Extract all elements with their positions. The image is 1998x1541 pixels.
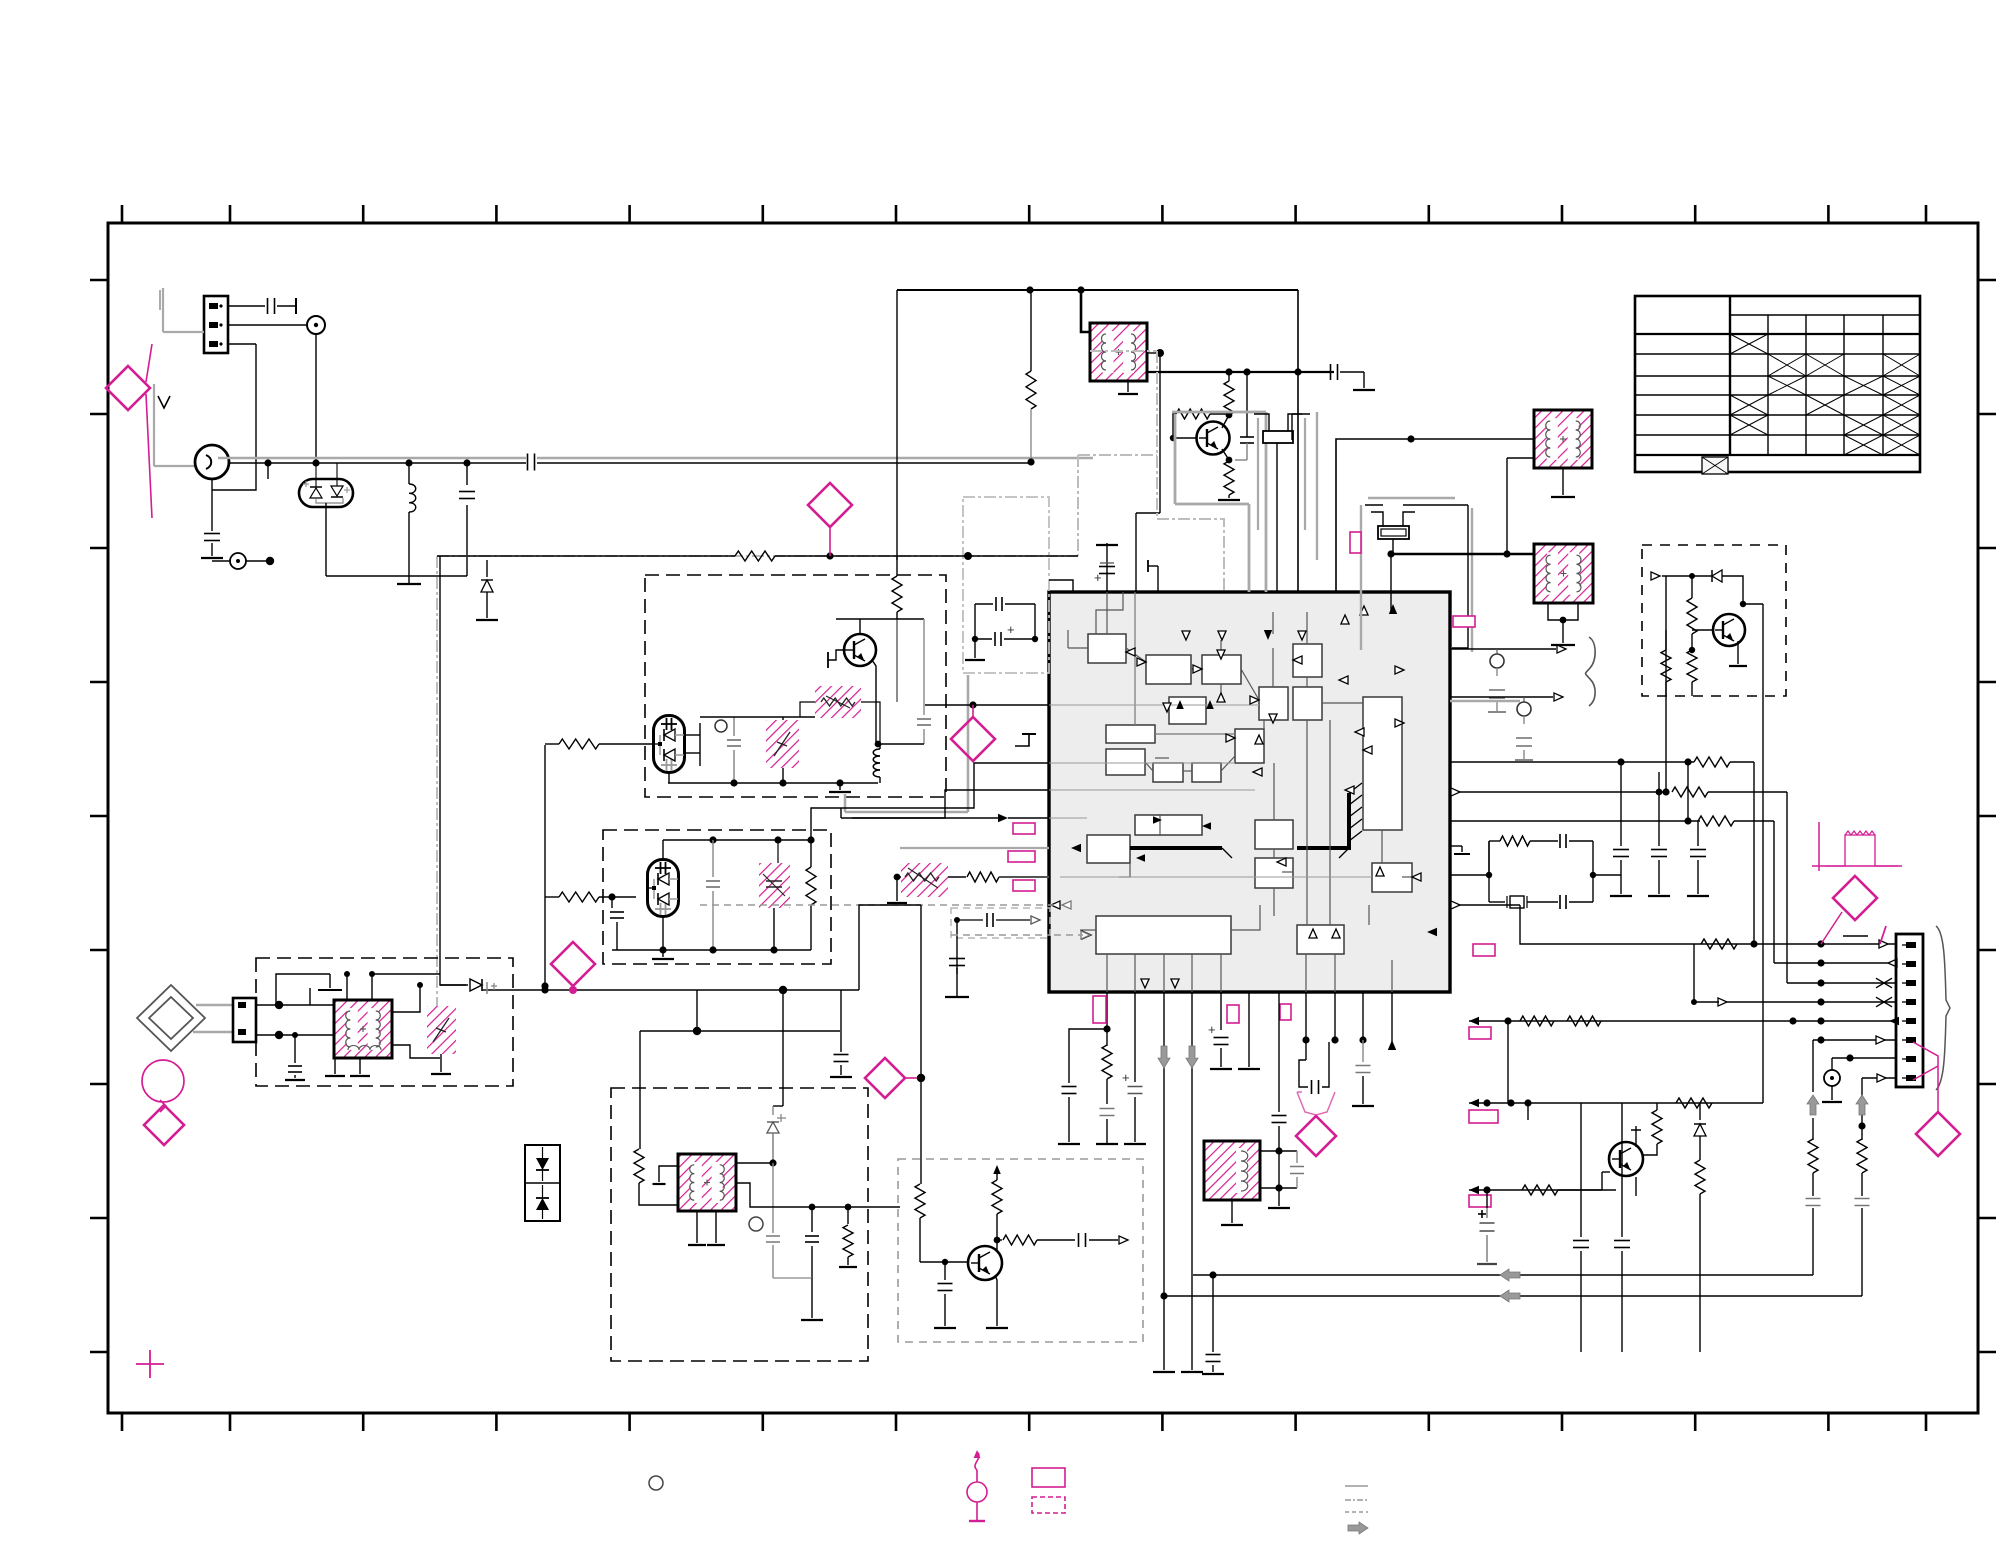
B5 input arrow (1651, 572, 1695, 580)
varactor VC3 (hatched) (427, 1006, 456, 1054)
VC3 ground (431, 1054, 451, 1074)
transformer T6 (hatched) (1204, 1141, 1260, 1200)
Q2 base stub (828, 650, 846, 668)
T5 out bottom rail (736, 1183, 900, 1210)
link to top (372, 973, 440, 975)
diode D10 + resistor R20 (1694, 1103, 1706, 1352)
off-page diamond D2 (808, 483, 852, 556)
label L1 (magenta) (1013, 823, 1035, 834)
pot VR1 (hatched) (901, 863, 948, 897)
capacitor C3 (459, 462, 475, 576)
resistor R3 (base) (1170, 409, 1229, 441)
row pin3 (1787, 978, 1896, 988)
wire X2 to T3 (1391, 553, 1534, 555)
link x1763 B5 to y1103 (1762, 696, 1764, 1103)
capacitor C5 (1235, 372, 1254, 460)
pin8 network (1299, 992, 1339, 1094)
wire y556 with resistor R5 (437, 551, 1078, 561)
label L2 (magenta) (1008, 851, 1035, 862)
diode D5 to ground (476, 560, 498, 620)
test point TP2 (212, 553, 274, 569)
magenta link to D9 (1913, 1042, 1938, 1112)
diode stack D6/D7 (525, 1145, 560, 1221)
curly brace right of IC (1586, 637, 1596, 706)
IC out row y649 (1450, 645, 1566, 653)
off-page diamond (antenna) (106, 344, 152, 518)
wire x440 down (440, 556, 468, 985)
wire x897 to B1 (896, 556, 898, 576)
resistor R2 (1222, 372, 1234, 428)
magenta trapezoid (1297, 1092, 1335, 1115)
dual varactor D2a (oval) (653, 716, 685, 773)
IC top pin B (1148, 560, 1158, 592)
Q1 emitter link (1222, 449, 1232, 463)
resistor R19 (1643, 1103, 1662, 1155)
electrolytic cap + gnd (1477, 1208, 1497, 1264)
connector J3 (2-pin) (233, 998, 256, 1042)
resistor R22 (992, 1165, 1002, 1252)
shield outline (dash-dot) (437, 351, 1224, 1010)
pin1 resistor chain (1096, 992, 1118, 1144)
resistor R15 (1687, 650, 1697, 696)
resistor/cap chain B (1855, 1095, 1870, 1296)
label right of IC top (1453, 616, 1475, 627)
diode D8 chain (767, 1106, 786, 1163)
stub (309, 988, 311, 1005)
IC top cap/gnd pin A (1094, 543, 1118, 592)
off-page diamond D5 (144, 1105, 184, 1145)
resistor R4 (emitter) (1218, 460, 1240, 500)
return stub y740 (1015, 734, 1036, 746)
capacitor C13 (285, 1035, 305, 1080)
Q5 base wire (920, 1259, 968, 1265)
gray shield vertical x1317 (1316, 412, 1318, 560)
wire to xfmr T1 (1081, 290, 1090, 332)
legend line styles (1345, 1486, 1368, 1534)
link x1666 up (1665, 576, 1667, 792)
wire J1 pin2 to TP (228, 324, 308, 326)
switch mark (1843, 926, 1886, 944)
resistor R12 (839, 1207, 857, 1267)
gray bus G2 (1175, 414, 1249, 592)
row pin5 (bidir) (1469, 1016, 1899, 1103)
xtal out (1590, 872, 1621, 878)
label (magenta) y1195 (1469, 1195, 1491, 1207)
svg-text:+: + (1122, 1070, 1130, 1085)
transformer T1 (hatched) (1090, 323, 1147, 381)
off-page diamond D6 (865, 1058, 917, 1098)
resistor R8 feed (545, 892, 636, 902)
gray dashed wire y905 (700, 901, 1071, 909)
B4 ground stem (773, 1278, 823, 1320)
capacitor C16 (934, 1262, 956, 1328)
IC internal bus lines (1130, 783, 1362, 858)
Q3 collector node (1740, 590, 1763, 607)
oval taps (684, 723, 700, 766)
capacitor C10 (gray) (706, 840, 720, 950)
IC out row y697 (1450, 693, 1563, 701)
row pin6 (1813, 1036, 1896, 1092)
B1 right mid (896, 619, 898, 702)
brace right of J4 (1936, 926, 1950, 1090)
wire J1 pin3 down to jack (212, 344, 256, 490)
pin11 arrow wire (1391, 992, 1393, 1042)
connector J1 (3-pin) (204, 296, 228, 353)
capacitor C8 (gray) (727, 717, 741, 783)
B2 oval stems (662, 840, 664, 950)
wire x697 to y1031 (693, 990, 701, 1035)
bottom row y1275 (1193, 1269, 1813, 1281)
row y821 + resistor R18 (1450, 816, 1774, 963)
label near X2 (1350, 532, 1361, 553)
Q4 collector (1631, 1126, 1641, 1147)
label (magenta) y1110 (1469, 1110, 1498, 1123)
top supply wire y290 (897, 286, 1298, 293)
IC internal arrows (1051, 604, 1437, 1050)
J3 wires (256, 1001, 334, 1039)
T4 out wire (392, 982, 423, 1012)
off-page diamond D4 (551, 942, 595, 994)
RF signal line (218, 454, 1093, 471)
IC internal function blocks (1087, 634, 1412, 954)
inductor L1 (409, 462, 416, 576)
crystal network (1489, 834, 1593, 909)
cap on y1275 (1202, 1275, 1224, 1374)
transformer T2 (hatched) (1534, 410, 1592, 468)
svg-text:+: + (1208, 1022, 1216, 1037)
pin1 cap branch (1058, 1029, 1107, 1144)
legend circle (649, 1476, 663, 1490)
row y1103 (1469, 1098, 1763, 1108)
waveform sketch (magenta) (1812, 822, 1902, 871)
B2 top rail (663, 836, 815, 843)
T5 grounds (688, 1211, 725, 1245)
row to connector pin1 (1450, 901, 1896, 949)
gray antenna leads (193, 1005, 233, 1032)
cap column B (1614, 1103, 1630, 1352)
link x1688 (1687, 762, 1689, 821)
wire x957 down (954, 917, 960, 953)
wire y439 to T2 (1336, 435, 1534, 592)
balanced antenna symbol (137, 985, 205, 1051)
bus corner to y905 (859, 905, 921, 990)
T4 grounds (325, 1058, 370, 1076)
legend magenta probe (967, 1450, 987, 1521)
connector J4 (8-pin) (1896, 934, 1923, 1087)
circled test point (1822, 1070, 1842, 1102)
resistor/cap chain A (1806, 1095, 1821, 1275)
shield box B3 (dashed) (256, 958, 513, 1086)
transistor Q1 (1197, 422, 1230, 455)
capacitor C11 in dashed box (957, 913, 1040, 927)
pin5 cap (1208, 992, 1232, 1069)
T6 secondary caps (1260, 1151, 1304, 1188)
legend dashed box (1032, 1497, 1065, 1513)
B2 ground (652, 950, 674, 959)
resistor R13 (1687, 576, 1697, 653)
resistor R9 (806, 840, 816, 950)
capacitor C15 (805, 1207, 819, 1278)
label right y944 (1473, 944, 1495, 956)
resistor R6 (892, 576, 902, 619)
dual varactor D3 (oval) (647, 860, 679, 917)
wire to IC y790 (841, 790, 1049, 818)
wire T2 to T3 link (1503, 458, 1534, 558)
resistor R10 into IC (948, 872, 1049, 882)
off-page diamond D9 (1916, 1112, 1960, 1156)
label (magenta) pin1 (1093, 996, 1106, 1023)
gray bus B1 (845, 675, 968, 812)
B4 circle marker (749, 1217, 763, 1231)
shield box B4 (dashed) (611, 1088, 868, 1361)
pin-function table (1635, 296, 1920, 474)
cap column A (1573, 1103, 1589, 1352)
X2 gray shield (1361, 498, 1472, 652)
B1 hatched links (800, 702, 880, 744)
resistor R21 (915, 1184, 925, 1262)
T6 ground (1221, 1200, 1243, 1225)
B2 bottom rail (612, 908, 811, 954)
magenta plus marker (136, 1350, 164, 1378)
resistor R7 feed (545, 739, 653, 749)
rail y1031 and x783 feed (640, 986, 840, 1106)
varactor VC1 (hatched) (766, 720, 799, 783)
B1 ground (829, 783, 851, 792)
label (magenta) pin5 (1469, 1027, 1491, 1039)
B5 out wire (1762, 604, 1764, 696)
junction (1656, 789, 1663, 796)
pin2 electrolytic (1122, 992, 1146, 1144)
B1 mid rail (700, 717, 815, 720)
bottom row y1296 (1160, 1290, 1862, 1302)
diode D4a (470, 979, 497, 994)
capacitor C4 to ground (1331, 364, 1376, 390)
antenna V symbol (158, 396, 170, 408)
pin7 wire+cap (1268, 992, 1290, 1208)
gray dashed box B6 (898, 1159, 1143, 1342)
label L3 (magenta) (1013, 880, 1035, 891)
row y762 + resistor R16 (1450, 757, 1754, 944)
gray bus G1 (1172, 412, 1266, 592)
row y875 link (1450, 841, 1492, 878)
gray wire y848 into IC (900, 847, 1049, 849)
wire TP1 down (315, 334, 317, 462)
label (magenta) pin5b (1227, 1005, 1239, 1023)
transistor Q4 (1609, 1142, 1643, 1176)
gray dashed wire y935 (951, 931, 1090, 939)
transistor Q2 (844, 634, 876, 666)
transistor Q5 (968, 1246, 1002, 1280)
magenta circle marker (142, 1060, 184, 1112)
capacitor C13b to ground (830, 990, 852, 1077)
B1 bottom rail (668, 772, 878, 787)
capacitor C9 (610, 897, 624, 950)
capacitor stack 1 (1610, 762, 1632, 896)
T5 out top (736, 1159, 777, 1166)
pin4 long wire (1181, 992, 1203, 1372)
VR1 ground (887, 874, 907, 903)
pin3 long wire (1153, 992, 1175, 1372)
wire x897 down (896, 290, 898, 560)
off-page diamond D3 (951, 705, 995, 761)
circle probe 1 + cap (1488, 649, 1506, 712)
wire y818 into IC (arrow) (852, 814, 1049, 822)
wire stubs Q4 (1528, 1103, 1636, 1196)
off-page diamond D8 (1821, 876, 1877, 944)
transistor Q3 (1692, 614, 1745, 646)
transformer T5 (hatched) (678, 1154, 736, 1211)
shield box B2 (dashed) (603, 830, 831, 964)
capacitor stack 3 (1687, 821, 1709, 896)
Q2 emitter wire (872, 660, 876, 744)
B1 top rail (836, 619, 924, 634)
resistor R1 (x1031) (1026, 290, 1036, 466)
resistor R11 (634, 1031, 678, 1205)
wire x920 down (917, 905, 925, 1184)
shield caps C17/C18 (965, 597, 1038, 660)
capacitor C7 right leg (875, 619, 931, 747)
row pin7 (1832, 1054, 1896, 1070)
pin9 wire (1334, 992, 1336, 1040)
IC internal wiring (1049, 592, 1412, 992)
row pin2 (1774, 959, 1897, 967)
inductor L2 (873, 744, 880, 783)
balun T4 (hatched) (334, 1000, 392, 1058)
label (magenta) pin7 (1280, 1004, 1291, 1020)
pin6 stub gnd (1238, 992, 1260, 1069)
gray antenna feed wires (154, 288, 204, 466)
resistor R14 (1661, 630, 1671, 696)
gray dashed box small (951, 908, 1050, 938)
legend solid box (1032, 1468, 1065, 1487)
row pin8 (1858, 1074, 1896, 1130)
Q3 emitter gnd (1729, 641, 1747, 666)
test point TP1 (307, 316, 325, 334)
wire x545 down (541, 745, 548, 990)
row pin4 (1691, 944, 1896, 1007)
X2 top wires (1365, 505, 1468, 648)
capacitor C2 jack to ground (201, 479, 223, 558)
T1 ground (1118, 381, 1138, 394)
T5 left stub (653, 1166, 679, 1184)
B1 alignment circle (715, 720, 727, 732)
IC U1 body (1049, 592, 1450, 992)
RF jack J2 (195, 445, 229, 479)
X1 gray shield (1258, 418, 1305, 530)
T1 secondary tap (1147, 349, 1164, 357)
capacitor stack 2 (1648, 792, 1670, 896)
row y1190 to Q4 base (1469, 1172, 1616, 1195)
transformer T3 (hatched) (1534, 544, 1593, 603)
resonator X1 (1254, 414, 1302, 592)
capacitor C12 to ground (945, 953, 969, 997)
B3 top wires (276, 971, 375, 1005)
black shield bracket (1292, 414, 1310, 440)
svg-text:+: + (1094, 570, 1102, 585)
border frame (108, 223, 1978, 1413)
T4 lower out (392, 1045, 440, 1058)
shield box B5 (dashed) (1642, 545, 1786, 696)
wire to diode (440, 984, 466, 986)
T1 tap wire to IC (1136, 353, 1160, 592)
varactor VC2 (hatched) (759, 840, 790, 908)
stub x1659 (1658, 772, 1660, 792)
pin10 cap gnd (1352, 992, 1374, 1106)
wire oval to ground rail (326, 503, 467, 584)
coil/pot (hatched) in B1 (815, 686, 861, 718)
diode D9h (1692, 570, 1743, 590)
Q5 emitter gnd (986, 1275, 1008, 1328)
svg-text:+: + (1007, 622, 1015, 637)
dual diode D1 (oval) (268, 463, 353, 507)
wire y705 into IC (925, 701, 1049, 708)
row y792 + resistor R17 (1450, 787, 1787, 983)
oscillator rail y372 (1147, 368, 1334, 375)
T2 ground (1551, 468, 1575, 497)
wire stub to cap (1486, 1190, 1488, 1208)
capacitor C14 (gray) (766, 1163, 780, 1278)
wire x1298 down to IC (1297, 290, 1299, 592)
circle probe 2 + cap (1515, 697, 1533, 760)
off-page diamond D7 (1296, 1116, 1336, 1156)
Q5 output RC (994, 1233, 1128, 1247)
T3 ground (1548, 603, 1578, 645)
resonator X2 (1371, 512, 1415, 612)
gnd stub y846 (1450, 846, 1470, 854)
shield box near IC (dash-dot) (963, 497, 1049, 673)
diode join (482, 989, 486, 991)
wire B2 to IC y763 (811, 763, 1049, 840)
IC top stub (1049, 580, 1073, 592)
bus y990 (486, 986, 859, 993)
frame tick marks (90, 205, 1996, 1431)
capacitor C1 on J1 pin1 (228, 298, 296, 314)
shield box B1 (dashed) (645, 575, 946, 797)
